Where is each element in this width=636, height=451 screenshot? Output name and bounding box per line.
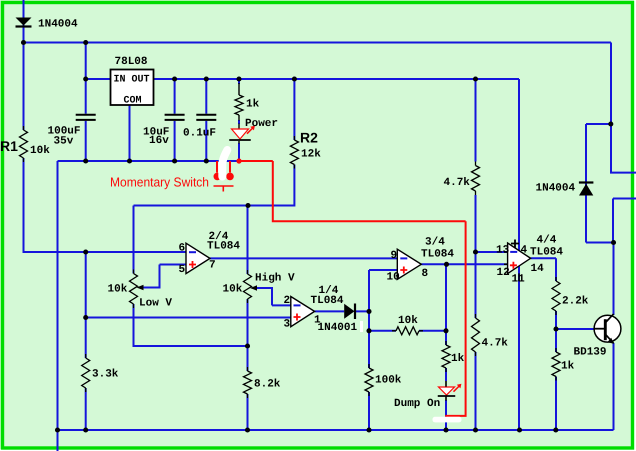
svg-text:R1: R1: [0, 138, 18, 154]
svg-text:3: 3: [284, 319, 291, 331]
svg-text:0.1uF: 0.1uF: [183, 128, 216, 140]
svg-text:R2: R2: [300, 129, 318, 145]
svg-text:4/4: 4/4: [537, 235, 557, 247]
svg-text:1k: 1k: [451, 353, 465, 365]
svg-text:13: 13: [496, 244, 510, 256]
svg-text:2: 2: [284, 295, 291, 307]
svg-text:3/4: 3/4: [425, 236, 445, 248]
svg-text:IN: IN: [114, 75, 126, 86]
svg-text:5: 5: [179, 264, 186, 276]
svg-text:TL084: TL084: [311, 295, 344, 307]
svg-text:16v: 16v: [149, 135, 169, 147]
svg-text:TL084: TL084: [530, 246, 563, 258]
svg-text:Low V: Low V: [139, 298, 172, 310]
svg-text:4.7k: 4.7k: [444, 177, 471, 189]
svg-text:2.2k: 2.2k: [562, 296, 589, 308]
svg-text:1k: 1k: [561, 361, 575, 373]
svg-text:Dump On: Dump On: [394, 398, 440, 410]
svg-text:6: 6: [179, 243, 186, 255]
svg-text:4.7k: 4.7k: [482, 338, 509, 350]
svg-text:Momentary Switch: Momentary Switch: [110, 175, 209, 190]
svg-text:10k: 10k: [30, 145, 50, 157]
svg-text:100k: 100k: [375, 374, 402, 386]
svg-text:BD139: BD139: [574, 347, 607, 359]
svg-text:8: 8: [422, 268, 429, 280]
svg-text:TL084: TL084: [421, 248, 454, 260]
svg-text:35v: 35v: [54, 136, 74, 148]
svg-text:4: 4: [521, 245, 528, 257]
svg-text:3.3k: 3.3k: [92, 369, 119, 381]
svg-text:78L08: 78L08: [115, 56, 148, 68]
svg-text:OUT: OUT: [132, 75, 150, 86]
svg-text:8.2k: 8.2k: [254, 379, 281, 391]
svg-text:14: 14: [531, 263, 545, 275]
svg-text:10k: 10k: [398, 315, 418, 327]
svg-text:1N4004: 1N4004: [38, 19, 78, 31]
svg-text:12: 12: [497, 267, 510, 279]
svg-text:10: 10: [387, 271, 400, 283]
svg-text:7: 7: [209, 260, 216, 272]
svg-text:TL084: TL084: [207, 240, 240, 252]
svg-text:1N4004: 1N4004: [536, 183, 576, 195]
svg-text:10k: 10k: [223, 284, 243, 296]
svg-text:COM: COM: [124, 96, 142, 107]
svg-text:12k: 12k: [301, 148, 321, 160]
svg-text:1N4001: 1N4001: [318, 322, 358, 334]
svg-text:1k: 1k: [246, 98, 260, 110]
svg-text:High V: High V: [255, 273, 295, 285]
svg-text:11: 11: [512, 273, 526, 285]
svg-text:9: 9: [391, 250, 398, 262]
svg-text:10k: 10k: [108, 284, 128, 296]
svg-text:Power: Power: [245, 118, 278, 130]
